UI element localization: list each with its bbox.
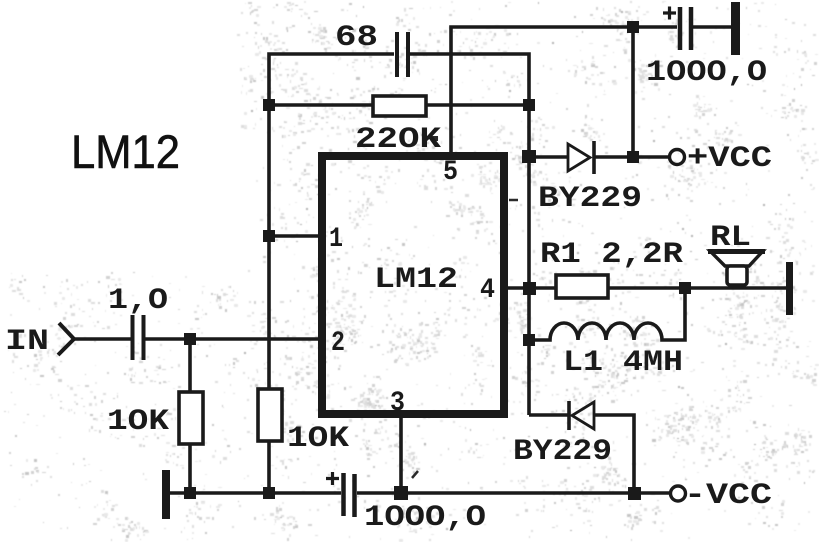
svg-text:22OK: 22OK <box>355 123 441 157</box>
svg-text:5: 5 <box>443 157 458 188</box>
junction pin1 / feedback line <box>263 230 275 242</box>
svg-text:68: 68 <box>335 21 378 55</box>
wire R1 to speaker node <box>608 286 786 290</box>
junction ground rail / R2 <box>184 487 196 499</box>
C4 polarity + <box>326 472 339 485</box>
+VCC open terminal circle <box>670 150 685 165</box>
svg-text:3: 3 <box>390 388 405 419</box>
wire C2 to corner down to R 220K right node <box>410 54 529 105</box>
junction D1 anode / vertical line <box>522 150 536 163</box>
svg-text:1OOO,O: 1OOO,O <box>646 56 767 90</box>
svg-text:BY229: BY229 <box>538 182 642 216</box>
svg-text:L1 4MH: L1 4MH <box>563 346 683 380</box>
resistor R2 10K (left) body <box>188 338 192 394</box>
svg-text:RL: RL <box>710 221 751 255</box>
wire +VCC drop <box>631 27 635 157</box>
wire output line corner to D2 <box>529 413 569 417</box>
capacitor C4 1000,0 plates <box>341 473 346 516</box>
svg-text:2: 2 <box>331 328 345 359</box>
capacitor C2 68 plates <box>395 32 399 77</box>
wire C3 to supply bar <box>693 25 731 29</box>
junction +VCC node <box>627 151 639 163</box>
svg-text:R1 2,2R: R1 2,2R <box>540 238 683 272</box>
wire -VCC node to terminal <box>634 491 670 495</box>
junction left vertical / 220K <box>263 99 275 111</box>
op-amp IC U1 LM12 body <box>322 156 504 414</box>
input arrow <box>58 323 74 355</box>
wire C1 to pin 2 of U1 <box>145 337 324 341</box>
junction 220K right end <box>523 99 535 111</box>
wire +VCC node to terminal <box>633 155 669 159</box>
ground terminal bar (left) <box>162 470 170 519</box>
svg-text:+VCC: +VCC <box>687 142 772 176</box>
svg-text:1OK: 1OK <box>287 422 349 456</box>
wire pin 4 to output node <box>506 286 529 290</box>
wire 220K row <box>269 103 529 107</box>
resistor R 220K body <box>373 96 426 116</box>
wire output node to diode D1 <box>529 155 568 159</box>
svg-text:4: 4 <box>480 275 495 306</box>
capacitor C3 1000,0 plates <box>678 7 683 50</box>
svg-text:LM12: LM12 <box>374 263 458 297</box>
junction pin3 / rail <box>394 486 408 500</box>
capacitor C1 plates <box>131 315 135 360</box>
wire output vertical line <box>527 105 531 415</box>
resistor R1 body <box>556 275 608 298</box>
supply terminal bar (top right) <box>731 2 740 55</box>
wire pin 5 up and top rail to C3 <box>451 27 677 154</box>
-VCC open terminal circle <box>671 486 686 501</box>
wire feedback vertical (top corner to ground rail) <box>269 54 394 106</box>
junction -VCC node <box>628 487 641 500</box>
diode D1 BY229 (top) <box>568 144 590 171</box>
wire IN arrow to C1 <box>74 337 131 341</box>
junction pin4 node <box>523 282 536 295</box>
svg-text:LM12: LM12 <box>71 125 180 178</box>
diode D2 BY229 (bottom) <box>567 401 571 430</box>
speaker RL symbol <box>710 251 763 266</box>
inductor L1 4MH <box>529 288 685 340</box>
junction input node <box>184 333 196 345</box>
wire D2 to -VCC node <box>594 415 634 493</box>
junction top rail / +VCC drop <box>627 21 639 33</box>
C3 polarity + <box>663 7 676 20</box>
wire ground rail <box>170 491 341 495</box>
svg-text:1,O: 1,O <box>108 284 168 318</box>
svg-text:-VCC: -VCC <box>684 479 772 513</box>
wire pin 1 to feedback line <box>269 234 324 238</box>
svg-text:1OOO,O: 1OOO,O <box>364 501 486 535</box>
wire D1 to +VCC node <box>594 155 633 159</box>
wire pin4 node to R1 <box>529 286 557 290</box>
svg-text:1: 1 <box>329 224 343 255</box>
wire pin 3 down to rail <box>399 417 403 493</box>
svg-text:IN: IN <box>5 325 49 359</box>
svg-text:1OK: 1OK <box>107 405 169 439</box>
junction ground rail / R3 <box>263 487 275 499</box>
svg-text:BY229: BY229 <box>513 435 612 469</box>
junction R1/L1 right node <box>679 282 691 294</box>
junction L1 left node <box>523 334 535 346</box>
resistor R3 10K (right) body <box>258 389 282 441</box>
speaker terminal bar (right) <box>786 262 793 315</box>
